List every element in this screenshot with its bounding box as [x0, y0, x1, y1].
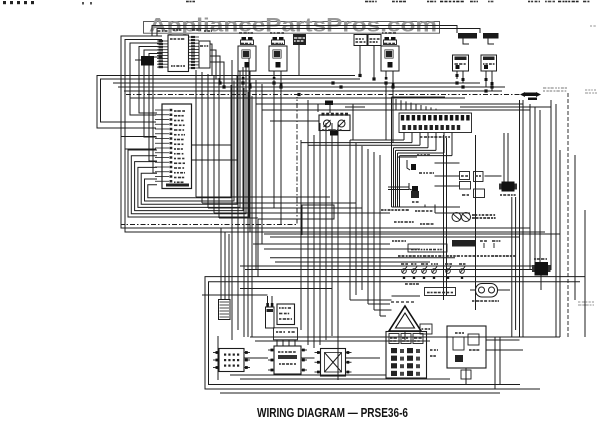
svg-text:WIRING DIAGRAM — PRSE36-6: WIRING DIAGRAM — PRSE36-6 — [257, 405, 408, 420]
